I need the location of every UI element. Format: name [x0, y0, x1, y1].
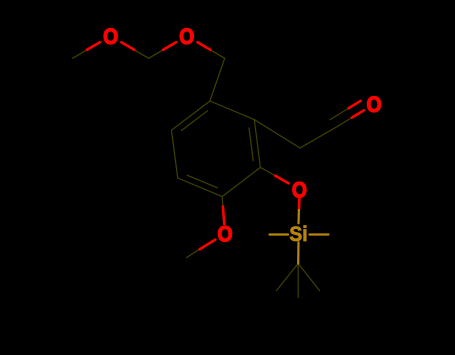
- svg-text:O: O: [366, 93, 381, 117]
- ring bond K-CB: [254, 120, 260, 168]
- C=O main line carbon half: [339, 118, 352, 126]
- bond CH2-CHO: [300, 126, 339, 149]
- ring bond CB-CC: [222, 167, 260, 196]
- t-Bu methyl left: [277, 264, 299, 291]
- ring bond I-J: [172, 101, 210, 130]
- svg-text:Si: Si: [289, 222, 307, 246]
- bond benzylic CH2 to ring: [210, 58, 225, 101]
- wire O1-CH3 red half: [87, 42, 100, 50]
- oxygen O3 (aldehyde): [366, 93, 381, 117]
- svg-text:O: O: [179, 25, 194, 49]
- oxygen O1 (MOM methyl ether): [103, 25, 118, 49]
- ring bond J-K: [210, 101, 254, 120]
- bond O-Si silicon half: [297, 210, 300, 223]
- wire O2-benzylic CH2 red half: [198, 42, 211, 50]
- svg-text:O: O: [103, 25, 118, 49]
- bond O1-CH2: [134, 50, 149, 59]
- ring inner double bond I=J: [182, 111, 208, 131]
- bond ring-OMe carbon half: [221, 197, 224, 207]
- bond Si-C(t-Bu): [297, 242, 299, 263]
- wire OTBS-ring red half: [275, 176, 288, 184]
- wire O2-CH2 red half: [163, 42, 176, 50]
- methoxy CH3: [187, 249, 200, 257]
- bond ring-OTBS carbon half: [260, 167, 275, 175]
- C=O second line oxygen half: [349, 101, 361, 108]
- wire OMe-CH3 red half: [200, 240, 216, 250]
- bond CH2-O2: [149, 50, 164, 59]
- svg-text:O: O: [217, 222, 232, 246]
- bond O-Si oxygen half: [298, 198, 301, 210]
- bond O2-CH2 benzylic: [210, 50, 224, 59]
- t-Bu methyl right: [298, 264, 319, 291]
- wire OMe-ring red half: [223, 207, 224, 224]
- C=O main line oxygen half: [352, 110, 364, 117]
- silicon Si (TBS group): [289, 222, 307, 246]
- Si left methyl bond: [270, 233, 289, 235]
- Si right methyl bond: [310, 233, 329, 235]
- oxygen O2 (MOM acetal): [179, 25, 194, 49]
- t-Bu methyl middle: [297, 264, 299, 298]
- ring inner double bond CC=H: [187, 175, 217, 188]
- ring bond H-I: [172, 130, 178, 178]
- bond ring-CH2 (side chain): [254, 120, 300, 148]
- methyl CH3 (MOM end): [73, 50, 87, 59]
- oxygen O4 (silyl ether): [292, 178, 307, 202]
- C=O second line carbon half: [330, 108, 349, 120]
- wire O1-CH2 red half: [121, 42, 134, 50]
- ring bond CC-H: [178, 178, 222, 197]
- ring inner double bond K=CB: [249, 128, 253, 161]
- svg-text:O: O: [292, 178, 307, 202]
- oxygen O5 (methoxy): [217, 222, 232, 246]
